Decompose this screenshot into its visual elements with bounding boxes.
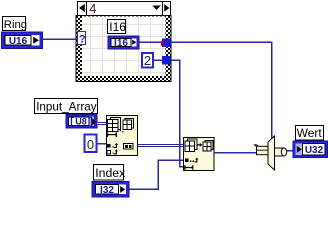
case structure grid bbox=[82, 17, 166, 77]
array grid front TL bbox=[108, 120, 119, 132]
array wire index array to array subset bbox=[138, 143, 183, 150]
right increment arrow bbox=[164, 4, 169, 11]
label Ring bbox=[3, 17, 28, 31]
element out glyph bbox=[124, 144, 134, 150]
wire array subset to join numbers bbox=[214, 152, 257, 154]
index glyph row 1 bbox=[107, 143, 118, 148]
svg-text:U8: U8 bbox=[75, 116, 87, 126]
control terminal I32 (Index) bbox=[92, 182, 129, 198]
array grid back L bbox=[188, 139, 198, 150]
array grid front R bbox=[203, 142, 211, 151]
left decrement arrow bbox=[79, 4, 85, 12]
function Index Array (icon1) bbox=[107, 116, 138, 156]
output pipe bbox=[275, 148, 285, 156]
indicator terminal U32 (Wert) bbox=[293, 141, 328, 158]
label I16 bbox=[108, 20, 127, 35]
label Index bbox=[94, 165, 127, 181]
wire Index to array subset index input bbox=[129, 160, 183, 189]
small arrow bbox=[197, 144, 201, 146]
numeric constant 0 bbox=[85, 135, 97, 153]
function Join Numbers bbox=[255, 136, 287, 170]
wire 2 to tunnel bbox=[154, 59, 163, 61]
svg-text:Input_Array: Input_Array bbox=[36, 101, 97, 114]
svg-text:I16: I16 bbox=[109, 20, 126, 34]
wire join to Wert bbox=[287, 150, 296, 152]
wire tunnel 2 to array subset length input bbox=[171, 60, 184, 167]
svg-text:Wert: Wert bbox=[297, 126, 323, 140]
wire I16 to tunnel bbox=[139, 41, 162, 43]
svg-text:4: 4 bbox=[89, 1, 96, 16]
svg-text:U32: U32 bbox=[305, 145, 324, 156]
svg-text:I16: I16 bbox=[114, 38, 128, 49]
svg-text:Index: Index bbox=[95, 166, 126, 180]
case selector label bar bbox=[78, 1, 171, 16]
svg-text:I32: I32 bbox=[100, 185, 114, 196]
wire tunnel to join numbers (hi) bbox=[171, 42, 272, 140]
case selector terminal ? bbox=[78, 32, 86, 46]
index glyph bbox=[185, 158, 199, 163]
svg-text:Ring: Ring bbox=[4, 19, 27, 31]
array wire [U8] to index array bbox=[97, 122, 106, 125]
tunnel out (I16) with coercion dot bbox=[161, 39, 171, 48]
left input pipe bbox=[257, 146, 269, 154]
array grid back R bbox=[205, 141, 213, 150]
blade bbox=[268, 136, 275, 170]
label Input_Array bbox=[35, 99, 98, 114]
index glyph row 2 bbox=[107, 149, 118, 154]
wire Ring to ? bbox=[43, 38, 78, 40]
svg-text:2: 2 bbox=[144, 53, 151, 68]
length glyph bbox=[107, 132, 116, 137]
array grid front TR bbox=[123, 120, 132, 130]
local variable terminal I16 bbox=[108, 36, 139, 49]
tunnel out (2) bbox=[162, 56, 171, 65]
array grid back TR bbox=[125, 119, 134, 129]
left input pipe cap bbox=[255, 145, 259, 147]
dropdown arrow bbox=[152, 6, 160, 11]
length glyph bbox=[185, 165, 193, 170]
control terminal U16 (Ring) bbox=[2, 32, 43, 49]
array grid back TL bbox=[111, 118, 121, 130]
label Wert bbox=[296, 126, 324, 141]
control terminal [U8] Input_Array bbox=[66, 115, 97, 129]
svg-text:U16: U16 bbox=[9, 36, 28, 47]
array grid front L bbox=[185, 141, 195, 152]
wire 0 to index array bbox=[97, 143, 106, 145]
svg-text:0: 0 bbox=[87, 137, 94, 152]
case structure CASE1 border bbox=[76, 16, 171, 82]
numeric constant 2 bbox=[142, 53, 153, 68]
svg-text:?: ? bbox=[79, 34, 86, 46]
function Array Subset (icon2) bbox=[184, 138, 215, 171]
